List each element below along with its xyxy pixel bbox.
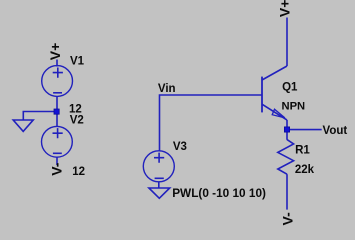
svg-text:V+: V+ [276, 0, 292, 17]
V2 plus sign [53, 128, 63, 138]
node Vout junction [284, 127, 289, 132]
svg-text:V1: V1 [70, 55, 85, 67]
wire V+ to Q1 collector [286, 18, 288, 67]
wire R1 bottom to V- [286, 174, 288, 209]
svg-text:V-: V- [280, 212, 296, 226]
svg-text:V-: V- [49, 162, 65, 176]
svg-text:V3: V3 [173, 141, 187, 153]
wire V1 bottom to node 12 [56, 96, 58, 110]
wire node to Vout label [287, 129, 322, 131]
svg-text:NPN: NPN [282, 101, 306, 113]
wire node to R1 top [286, 131, 288, 140]
ground symbol (under V3) [149, 188, 170, 198]
transistor Q1 emitter arrow [272, 109, 285, 118]
svg-text:12: 12 [72, 166, 85, 178]
V1 plus sign [53, 68, 63, 78]
svg-text:Q1: Q1 [282, 81, 298, 93]
svg-text:Vin: Vin [158, 83, 176, 95]
V3 minus sign [155, 177, 164, 179]
wire V3 bottom stub [158, 182, 160, 188]
node 12 junction (between V1 and V2) [54, 109, 59, 114]
resistor R1 [278, 140, 294, 175]
wire emitter to Vout node [286, 120, 288, 128]
wire V+ stub to V1 top [56, 60, 58, 67]
svg-text:V+: V+ [47, 43, 63, 61]
svg-text:PWL(0 -10 10 10): PWL(0 -10 10 10) [172, 186, 266, 200]
ground symbol (left) [13, 120, 33, 131]
transistor Q1 emitter diagonal [262, 104, 287, 120]
svg-text:R1: R1 [295, 145, 310, 157]
voltage source V1 [42, 66, 73, 97]
svg-text:V2: V2 [70, 115, 84, 127]
wire node to V2 top [56, 113, 58, 127]
wire V2 bottom stub to V- [56, 157, 58, 165]
transistor Q1 base bar [261, 77, 263, 113]
V3 plus sign [154, 153, 164, 163]
svg-text:22k: 22k [295, 164, 315, 176]
voltage source V2 [42, 126, 73, 157]
transistor Q1 collector diagonal [262, 66, 287, 80]
svg-text:Vout: Vout [323, 125, 348, 137]
voltage source V3 [143, 151, 174, 182]
V2 minus sign [53, 152, 62, 154]
wire Vin node to V3 and to Q1 base [160, 95, 262, 151]
wire node to ground branch [23, 112, 55, 120]
V1 minus sign [53, 92, 62, 94]
